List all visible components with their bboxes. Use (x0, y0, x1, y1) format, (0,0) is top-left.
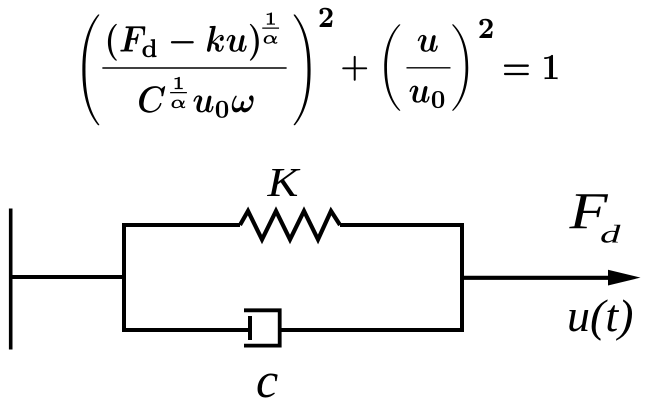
force arrow line (462, 276, 612, 280)
svg-text:c: c (256, 352, 278, 401)
damper c piston rod bar (248, 316, 252, 340)
node B: box right edge (460, 223, 464, 332)
force arrowhead (608, 270, 641, 286)
wire bottom-left (122, 328, 250, 332)
svg-text:K: K (266, 160, 301, 205)
spring K (240, 211, 340, 240)
svg-text:d: d (600, 221, 622, 249)
node A: box left edge (122, 223, 126, 332)
wire wall to node A (10, 275, 124, 279)
wire bottom-right (280, 328, 464, 332)
damper c cylinder (244, 310, 280, 345)
wire top-left (122, 223, 240, 227)
wire top-right (340, 223, 464, 227)
svg-text:u(t): u(t) (567, 290, 633, 341)
equation (73, 5, 564, 128)
wall (9, 209, 13, 350)
